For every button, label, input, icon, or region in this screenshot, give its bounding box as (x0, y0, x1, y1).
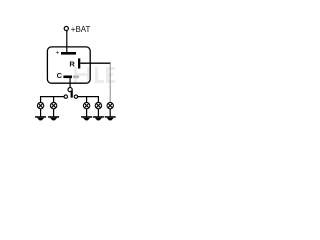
wire lamp L2 feed (53, 97, 55, 103)
wire lamp L2 to ground (53, 109, 55, 117)
wire R output vertical to pilot lamp (109, 63, 111, 102)
wire left bus (41, 97, 64, 103)
svg-text:+: + (56, 49, 60, 56)
switch left contact (64, 95, 67, 98)
wire lamp R1 to ground (86, 109, 88, 117)
lamp R2 (95, 102, 101, 108)
wire from +BAT to plate (66, 31, 68, 53)
wire right bus (78, 97, 99, 103)
lamp R1 (83, 102, 89, 108)
wire lamp L1 to ground (40, 109, 42, 117)
ground pilot (105, 116, 116, 120)
terminal +BAT (64, 26, 68, 30)
ground L2 (48, 116, 59, 120)
resistor R electrode (78, 58, 80, 68)
wire lamp R1 feed (86, 97, 88, 103)
lamp L1 (37, 102, 43, 108)
lamp L2 (50, 102, 56, 108)
ground L1 (35, 116, 46, 120)
ground R1 (81, 116, 92, 120)
watermark segment over C row (73, 76, 79, 79)
switch right contact (74, 95, 77, 98)
pilot lamp (107, 102, 113, 108)
wire pilot lamp to ground (109, 109, 111, 117)
switch pole terminal (68, 88, 72, 92)
flasher unit box (47, 47, 90, 83)
svg-text:C: C (57, 71, 63, 80)
watermark (74, 67, 115, 83)
ground R2 (93, 116, 104, 120)
wire C to switch pole (69, 78, 71, 88)
svg-text:R: R (69, 60, 75, 69)
svg-text:+BAT: +BAT (71, 25, 91, 34)
wire R output horizontal (80, 62, 110, 64)
plate electrode (+) (61, 52, 76, 55)
wire lamp R2 to ground (97, 109, 99, 117)
switch blade (71, 90, 73, 97)
capacitor C electrode (63, 76, 72, 79)
